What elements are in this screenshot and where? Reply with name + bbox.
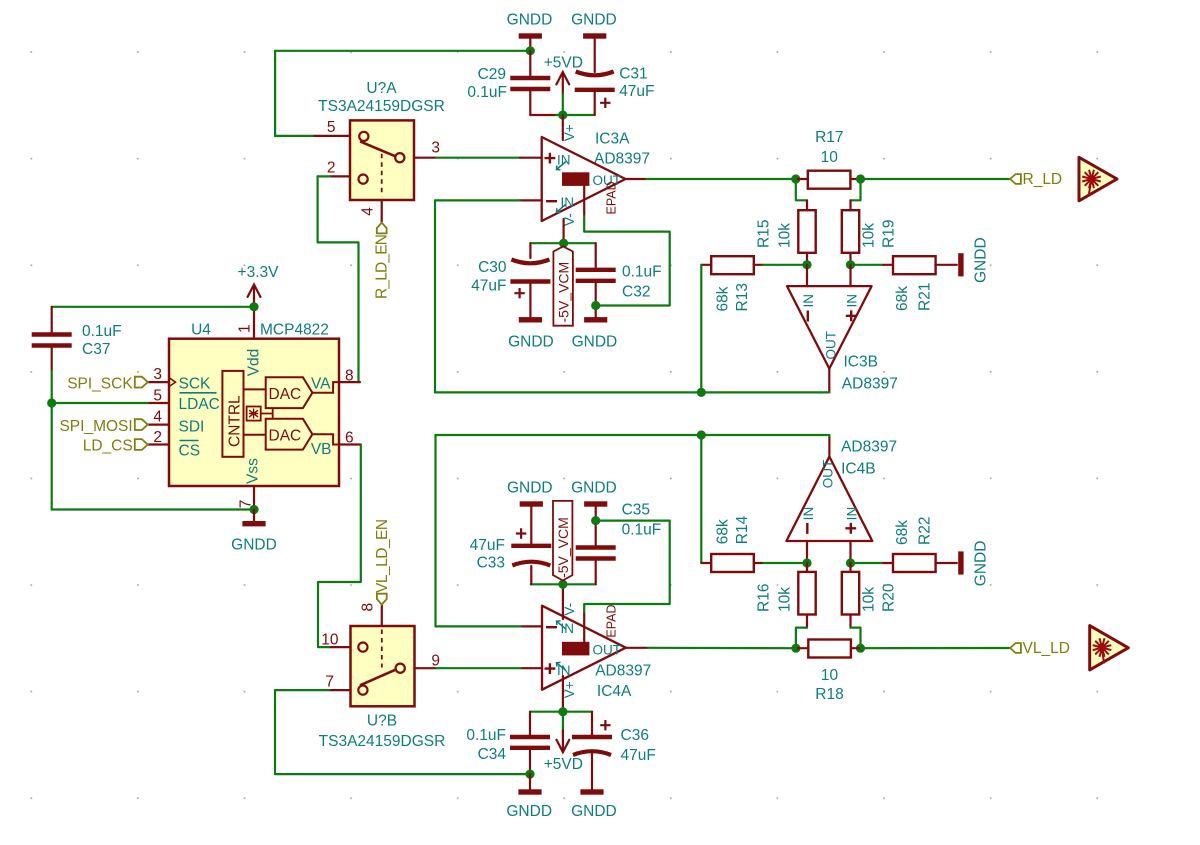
IC3A -IN arrow mark xyxy=(557,204,567,212)
svg-text:10k: 10k xyxy=(861,587,878,612)
svg-text:8: 8 xyxy=(360,603,377,612)
IC3A +IN pin stub xyxy=(520,157,542,159)
resistor R16 bottom lead xyxy=(806,615,808,628)
U?B pin 9 stub xyxy=(415,667,437,669)
capacitor C32 bottom lead xyxy=(595,283,597,317)
U?A pin 5 stub xyxy=(315,135,351,137)
svg-text:Vdd: Vdd xyxy=(246,349,263,377)
capacitor C30 top lead xyxy=(529,243,531,258)
IC4A -IN arrow mark xyxy=(557,621,567,629)
IC3B graphic minus xyxy=(807,311,809,322)
resistor R18 body xyxy=(808,640,851,658)
U4 pin 5 stub (LDAC) xyxy=(148,402,169,404)
svg-text:68k: 68k xyxy=(715,286,732,311)
svg-text:R21: R21 xyxy=(917,283,934,311)
resistor R19 body xyxy=(842,210,859,253)
resistor R21 right lead xyxy=(935,264,957,266)
U?A switch lever xyxy=(360,141,395,156)
svg-text:5: 5 xyxy=(327,119,336,136)
U?B switch lever xyxy=(360,670,395,686)
resistor R16 body xyxy=(798,572,815,615)
wire bottom rail left xyxy=(530,711,563,713)
svg-text:IN: IN xyxy=(801,507,816,521)
svg-text:R16: R16 xyxy=(756,584,773,612)
IC4B graphic + xyxy=(845,523,856,534)
IC4A -IN pin stub xyxy=(521,625,542,627)
ground GNDD (right of R21) xyxy=(958,253,963,276)
svg-text:OUT: OUT xyxy=(824,331,839,360)
junction (C35 / EPAD gnd lower) xyxy=(591,516,600,525)
junction (-IN IC3B) xyxy=(802,260,811,269)
junction (+5VD / V+ of IC4A) xyxy=(558,707,567,716)
junction (+5VD / V+ of IC3A) xyxy=(558,110,567,119)
IC4A V- pin xyxy=(562,584,564,619)
svg-text:3: 3 xyxy=(153,366,162,383)
svg-text:DAC: DAC xyxy=(269,386,302,403)
svg-text:+5VD: +5VD xyxy=(544,756,583,773)
capacitor C29 xyxy=(510,76,550,80)
junction (Vss / GNDD) xyxy=(249,505,258,514)
svg-text:GNDD: GNDD xyxy=(507,480,553,497)
resistor R17 right lead xyxy=(851,178,861,180)
capacitor C31 top lead xyxy=(594,39,596,72)
wire EPAD to GNDD xyxy=(584,216,670,306)
U4 pin 4 stub (SDI) xyxy=(148,424,169,426)
ground GNDD (below C30) xyxy=(519,317,542,322)
wire V- rail right xyxy=(564,242,596,244)
U?A pin 4 stub xyxy=(381,200,383,222)
svg-text:IN: IN xyxy=(845,294,860,308)
svg-text:VL_LD_EN: VL_LD_EN xyxy=(374,519,391,593)
resistor R19 bottom lead xyxy=(849,253,851,265)
IC4B +IN pin xyxy=(849,541,851,563)
resistor R20 bottom lead xyxy=(849,615,851,628)
junction (+3.3V / U4 Vdd / C37) xyxy=(249,302,258,311)
capacitor C36 top lead xyxy=(591,712,593,735)
svg-text:0.1uF: 0.1uF xyxy=(467,84,507,101)
svg-text:VA: VA xyxy=(311,376,331,393)
capacitor C31 flat plate xyxy=(575,88,615,92)
resistor R22 right lead xyxy=(935,562,957,564)
IC4B graphic minus xyxy=(806,523,808,534)
junction (IC3A V- / -5V_VCM) xyxy=(559,239,568,248)
svg-text:SDI: SDI xyxy=(179,418,205,435)
op-amp IC4B body xyxy=(786,457,872,541)
power symbol +5VD arrow (down) xyxy=(557,730,570,752)
svg-text:2: 2 xyxy=(327,159,336,176)
svg-text:R_LD: R_LD xyxy=(1023,171,1063,188)
resistor R16 top lead xyxy=(806,563,808,572)
laser diode D (VL) body xyxy=(1090,626,1129,670)
IC3A V- pin xyxy=(562,219,564,243)
junction (feedback / R14) xyxy=(697,430,706,439)
svg-text:GNDD: GNDD xyxy=(973,541,990,587)
IC4B output stub xyxy=(828,436,830,457)
U4 CNTRL block xyxy=(222,371,243,457)
capacitor C30 bottom lead xyxy=(529,284,531,317)
junction (GNDD / C29 / switch pin5 net) xyxy=(526,46,535,55)
svg-text:0.1uF: 0.1uF xyxy=(466,727,506,744)
junction (feedback / R13) xyxy=(697,388,706,397)
wire R13 to IC3B out rail xyxy=(700,265,702,393)
svg-text:AD8397: AD8397 xyxy=(594,150,650,167)
capacitor C35 xyxy=(576,545,616,549)
svg-text:VB: VB xyxy=(311,441,332,458)
svg-text:LDAC: LDAC xyxy=(179,396,220,413)
svg-text:IN: IN xyxy=(557,152,571,167)
IC4A graphic minus xyxy=(546,626,557,628)
wire IC4B out rail xyxy=(436,434,830,436)
wire R16 jog to R18 xyxy=(796,628,807,649)
U4 pin 1 stub xyxy=(253,307,255,339)
capacitor C33 bottom lead xyxy=(530,566,532,584)
capacitor C35 top lead xyxy=(595,507,597,545)
svg-text:C36: C36 xyxy=(621,727,649,744)
capacitor C34 xyxy=(510,735,550,739)
svg-text:0.1uF: 0.1uF xyxy=(622,263,662,280)
wire IC4A out to R18 xyxy=(648,647,796,650)
wire U?B pin9 to IC4A +IN xyxy=(436,667,521,669)
wire U?A pin3 to IC3A +IN xyxy=(436,157,520,159)
IC3B graphic + xyxy=(846,310,857,321)
wire R17 to R15 jog xyxy=(796,179,807,200)
svg-text:+3.3V: +3.3V xyxy=(238,264,280,281)
svg-text:C31: C31 xyxy=(619,65,647,82)
junction (-IN IC4B) xyxy=(802,558,811,567)
wire R14 to -IN xyxy=(763,562,807,564)
capacitor C33 flat plate xyxy=(511,544,551,548)
capacitor C31 polarity + xyxy=(600,98,610,108)
svg-text:IC3A: IC3A xyxy=(595,131,630,148)
capacitor C31 curved plate xyxy=(576,72,614,76)
capacitor C30 flat plate xyxy=(510,279,550,283)
capacitor C34 top lead xyxy=(529,712,531,735)
capacitor C29 bottom lead xyxy=(529,91,531,115)
IC3A EPAD pad xyxy=(562,172,589,186)
IC3B +IN pin xyxy=(849,265,851,286)
svg-text:TS3A24159DGSR: TS3A24159DGSR xyxy=(318,98,445,115)
svg-text:C33: C33 xyxy=(477,554,505,571)
svg-text:C34: C34 xyxy=(478,746,507,763)
stub xyxy=(253,305,255,308)
IC3A graphic + xyxy=(545,153,556,164)
capacitor C33 polarity + xyxy=(516,528,526,538)
junction (+IN IC3B) xyxy=(846,260,855,269)
svg-text:OUT: OUT xyxy=(821,460,836,489)
svg-text:C32: C32 xyxy=(622,283,650,300)
svg-text:10: 10 xyxy=(321,631,339,648)
ground stem xyxy=(253,510,255,522)
resistor R18 left lead xyxy=(796,647,808,649)
svg-text:IN: IN xyxy=(801,294,816,308)
U?B pin7 contact xyxy=(358,686,367,695)
ground stem C34 xyxy=(529,774,531,789)
wire +IN to R22 xyxy=(851,562,884,564)
svg-text:10: 10 xyxy=(821,149,839,166)
U4 pin 6 stub (VB) xyxy=(339,443,361,445)
U4 VB internal jog xyxy=(312,434,339,444)
wire IC3B out feedback rail xyxy=(435,391,829,393)
resistor R13 right lead xyxy=(754,264,764,266)
svg-text:R14: R14 xyxy=(734,515,751,544)
net label arrow VL_LD_EN xyxy=(377,594,387,605)
svg-text:1: 1 xyxy=(237,324,254,333)
ground GNDD (right of R22) xyxy=(958,551,963,574)
svg-text:V+: V+ xyxy=(562,124,577,141)
wire down to pin5 xyxy=(274,51,276,136)
resistor R20 body xyxy=(842,572,859,615)
svg-text:GNDD: GNDD xyxy=(571,803,617,820)
wire U?B pin7 to gnd-side of C34? (+5VD loop) xyxy=(275,690,530,774)
resistor R22 body xyxy=(893,554,936,572)
IC3A output stub xyxy=(626,178,647,180)
capacitor C36 curved plate xyxy=(573,751,611,755)
U4 vref box xyxy=(247,407,261,421)
capacitor C30 polarity + xyxy=(514,288,524,298)
svg-text:47uF: 47uF xyxy=(619,83,654,100)
ground GNDD (below U4) xyxy=(242,521,265,526)
IC3A -IN pin stub xyxy=(520,199,542,201)
capacitor C36 bottom lead xyxy=(591,754,593,790)
ground GNDD (top, above C31) xyxy=(583,33,606,38)
wire R20 jog to R18 xyxy=(851,628,861,649)
resistor R14 left lead xyxy=(701,562,711,564)
svg-text:68k: 68k xyxy=(715,519,732,544)
wire IC3A out to R17 xyxy=(646,178,796,180)
analog switch U?B body xyxy=(351,626,415,706)
wire EPAD to GNDD (lower) xyxy=(584,521,670,612)
power label -5V_VCM (lower) xyxy=(553,501,572,581)
wire R13 to -IN xyxy=(763,264,807,266)
U4 CNTRL to DACA line xyxy=(244,388,266,390)
power label -5V_VCM (upper) xyxy=(553,246,573,325)
svg-text:3: 3 xyxy=(431,140,440,157)
U?A pin2 contact xyxy=(359,175,368,184)
capacitor C37 top lead xyxy=(51,307,53,332)
svg-text:68k: 68k xyxy=(894,286,911,311)
svg-text:C30: C30 xyxy=(478,259,507,276)
capacitor C34 bottom lead xyxy=(529,750,531,774)
capacitor C35 bottom lead xyxy=(595,561,597,585)
wire +IN to R21 xyxy=(851,264,884,266)
svg-text:2: 2 xyxy=(153,429,162,446)
capacitor C36 flat plate xyxy=(572,735,612,739)
ground GNDD (top, above C29) xyxy=(519,33,542,38)
wire to +5VD arrow xyxy=(562,712,564,733)
resistor R21 body xyxy=(893,256,936,274)
svg-text:U?A: U?A xyxy=(366,80,397,97)
capacitor C36 polarity + xyxy=(600,720,610,730)
svg-text:4: 4 xyxy=(360,207,377,216)
resistor R17 left lead xyxy=(796,178,808,180)
svg-text:R20: R20 xyxy=(881,583,898,612)
IC3B output stub xyxy=(828,369,830,393)
junction (C32 / EPAD gnd) xyxy=(591,301,600,310)
wire +5VD arrow to rail xyxy=(562,94,564,115)
svg-text:10k: 10k xyxy=(777,587,794,612)
svg-text:U4: U4 xyxy=(191,321,211,338)
svg-text:R13: R13 xyxy=(734,283,751,311)
ground GNDD (below C34) xyxy=(518,789,541,794)
wire +5VD rail xyxy=(556,114,595,116)
IC4A graphic + xyxy=(545,663,556,674)
net label arrow R_LD_EN xyxy=(377,223,387,234)
U4 DAC B pentagon xyxy=(266,419,313,450)
wire rail down to IC4A -IN xyxy=(434,435,436,626)
svg-text:R18: R18 xyxy=(815,686,843,703)
IC4A V+ pin xyxy=(562,676,564,712)
svg-text:GNDD: GNDD xyxy=(572,333,618,350)
wire U4 VB to U?B pin10 xyxy=(318,445,361,648)
svg-text:SPI_SCK: SPI_SCK xyxy=(67,375,133,392)
svg-text:GNDD: GNDD xyxy=(506,803,552,820)
U?A pin 2 stub xyxy=(330,175,350,177)
svg-text:7: 7 xyxy=(325,674,334,691)
net label arrow SPI_SCK xyxy=(135,377,148,388)
svg-text:MCP4822: MCP4822 xyxy=(260,321,329,338)
net label arrow R_LD xyxy=(1010,174,1021,184)
U?A pin 3 stub xyxy=(414,157,436,159)
U4 pin 3 stub (SCK) xyxy=(148,381,169,383)
svg-text:Vss: Vss xyxy=(245,458,262,484)
ground GNDD (above C33) xyxy=(520,501,543,506)
IC4A EPAD pad xyxy=(562,642,589,656)
svg-text:U?B: U?B xyxy=(367,713,397,730)
U?B pin10 contact xyxy=(358,643,367,652)
U4 pin 2 stub (CS) xyxy=(148,443,169,445)
svg-text:GNDD: GNDD xyxy=(231,536,277,553)
wire net GNDD rail to U3A pin5 xyxy=(275,50,530,52)
svg-text:9: 9 xyxy=(431,652,440,669)
IC4B -IN pin xyxy=(806,541,808,563)
svg-text:C35: C35 xyxy=(622,502,650,519)
svg-text:GNDD: GNDD xyxy=(973,237,990,283)
svg-text:OUT: OUT xyxy=(593,642,622,657)
svg-text:-5V_VCM: -5V_VCM xyxy=(555,517,571,578)
capacitor C33 top lead xyxy=(530,507,532,544)
wire (maroon) C29 to +5VD node xyxy=(530,114,556,116)
svg-text:GNDD: GNDD xyxy=(571,480,617,497)
wire V- rail left xyxy=(530,242,563,244)
resistor R13 body xyxy=(711,256,754,274)
svg-text:GNDD: GNDD xyxy=(571,12,617,29)
U?B actuator dashed line xyxy=(381,630,383,668)
U?B pin 8 stub xyxy=(381,606,383,627)
laser starburst (R) xyxy=(1082,170,1101,197)
power symbol +5VD arrow xyxy=(556,72,569,94)
svg-text:AD8397: AD8397 xyxy=(841,439,897,456)
resistor R21 left lead xyxy=(883,264,893,266)
wire rail to R14 xyxy=(700,435,702,563)
IC3B -IN pin xyxy=(806,265,808,286)
svg-text:47uF: 47uF xyxy=(470,537,505,554)
svg-text:AD8397: AD8397 xyxy=(595,663,651,680)
U4 SCK clock mark xyxy=(169,378,176,387)
svg-text:5: 5 xyxy=(153,387,162,404)
capacitor C30 curved plate xyxy=(511,260,549,264)
svg-text:GNDD: GNDD xyxy=(508,333,554,350)
svg-text:C37: C37 xyxy=(82,341,110,358)
U?B pin 7 stub xyxy=(329,689,351,691)
ground GNDD (above C35) xyxy=(584,501,607,506)
svg-text:IN: IN xyxy=(845,507,860,521)
svg-text:R15: R15 xyxy=(756,220,773,248)
svg-text:47uF: 47uF xyxy=(471,277,506,294)
svg-text:C29: C29 xyxy=(478,66,506,83)
U4 vref star xyxy=(249,409,258,419)
wire pin2 xyxy=(318,175,330,177)
resistor R13 left lead xyxy=(701,264,711,266)
svg-text:V+: V+ xyxy=(562,681,577,698)
U?A pin3 contact xyxy=(395,153,404,162)
wire bottom rail right xyxy=(563,711,592,713)
pin V+ IC3A xyxy=(562,115,564,140)
wire +3.3V rail to C37 xyxy=(52,306,254,308)
svg-text:+5VD: +5VD xyxy=(544,55,583,72)
wire R18 to VL_LD xyxy=(861,647,1010,649)
wire to pin5 stub xyxy=(275,135,314,137)
laser diode D (R) body xyxy=(1079,157,1117,201)
svg-text:VL_LD: VL_LD xyxy=(1023,640,1070,657)
capacitor C32 xyxy=(576,268,616,272)
wire C37 to ground rail xyxy=(51,371,53,510)
svg-text:CNTRL: CNTRL xyxy=(226,395,243,447)
IC3A graphic minus xyxy=(546,200,557,202)
svg-text:10k: 10k xyxy=(777,223,794,248)
wire feedback to IC4A -IN xyxy=(436,625,522,627)
IC4A output stub xyxy=(626,647,648,649)
ground GNDD (below C36) xyxy=(580,789,603,794)
ground GNDD (below C32) xyxy=(584,317,607,322)
svg-text:CS: CS xyxy=(179,442,201,459)
U4 CNTRL to DACB line xyxy=(244,434,266,436)
svg-text:SPI_MOSI: SPI_MOSI xyxy=(59,418,132,435)
svg-text:EPAD: EPAD xyxy=(605,181,619,214)
resistor R14 body xyxy=(711,554,754,572)
IC4A EPAD pin xyxy=(583,612,585,642)
svg-text:0.1uF: 0.1uF xyxy=(82,323,122,340)
U4 vref link xyxy=(261,408,273,419)
junction (R17 left) xyxy=(791,174,800,183)
resistor R18 right lead xyxy=(851,647,861,649)
U?B pin 10 stub xyxy=(329,646,351,648)
svg-text:R17: R17 xyxy=(815,129,843,146)
net label arrow VL_LD xyxy=(1010,643,1021,653)
power symbol +3.3V arrow xyxy=(248,285,261,307)
resistor R15 bottom lead xyxy=(806,253,808,265)
capacitor C31 bottom lead xyxy=(594,92,596,115)
U4 DAC A pentagon xyxy=(266,377,313,408)
net label arrow SPI_MOSI xyxy=(135,419,148,430)
junction (R18 left) xyxy=(791,644,800,653)
resistor R14 right lead xyxy=(754,562,764,564)
svg-text:0.1uF: 0.1uF xyxy=(622,522,662,539)
resistor R17 body xyxy=(808,171,851,189)
U4 pin 8 stub (VA) xyxy=(339,381,360,383)
wire V- rail right (lower) xyxy=(563,583,596,585)
op-amp IC3A body xyxy=(542,137,626,221)
junction (C34 / U?B pin7) xyxy=(525,770,534,779)
U?A actuator dashed line xyxy=(381,154,383,197)
svg-text:EPAD: EPAD xyxy=(605,604,619,637)
CS overline xyxy=(180,440,199,442)
svg-text:68k: 68k xyxy=(894,520,911,545)
svg-text:10: 10 xyxy=(821,667,839,684)
svg-text:TS3A24159DGSR: TS3A24159DGSR xyxy=(319,733,446,750)
svg-text:LD_CS: LD_CS xyxy=(83,438,133,455)
svg-text:R_LD_EN: R_LD_EN xyxy=(374,235,391,299)
net label arrow LD_CS xyxy=(135,439,148,450)
